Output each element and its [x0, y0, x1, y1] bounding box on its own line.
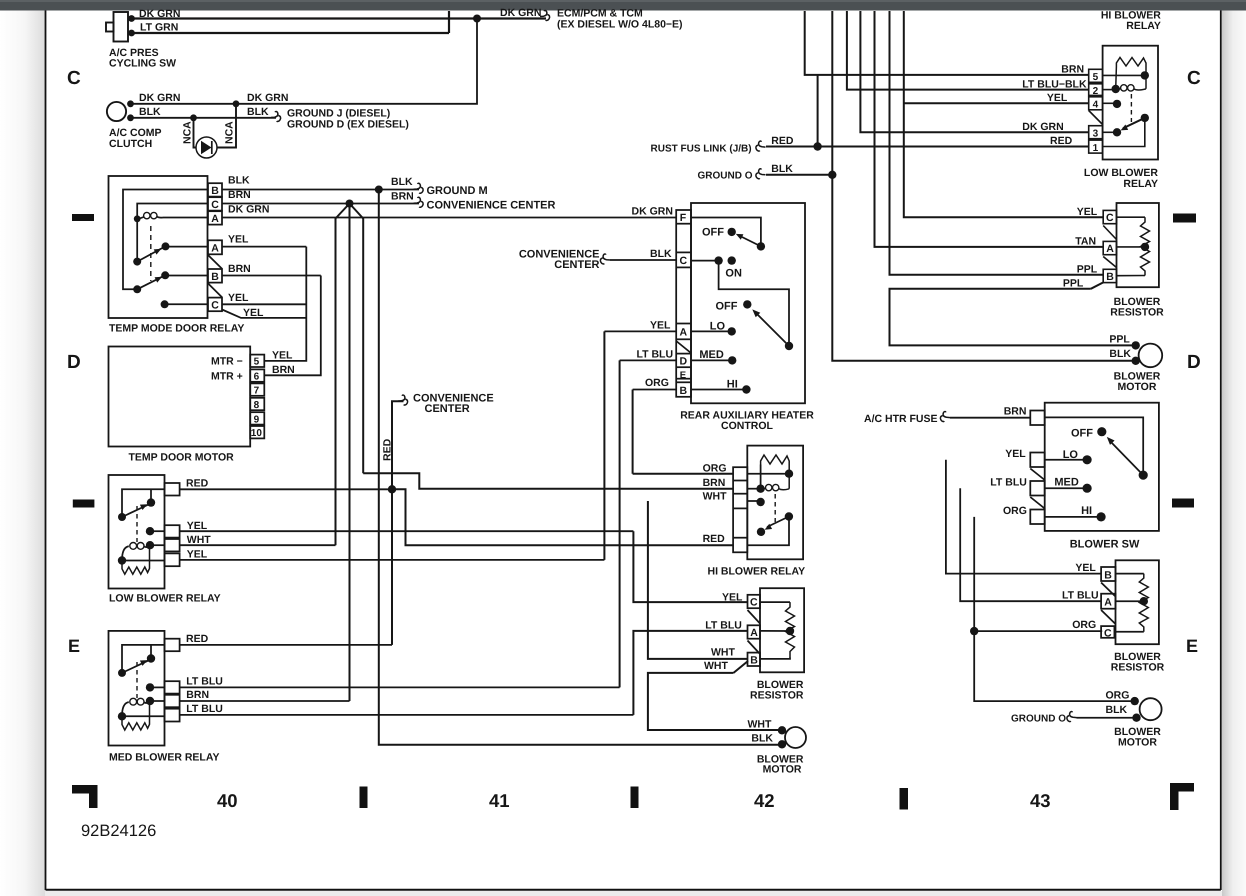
wire ON node to sw2 pivot	[719, 261, 789, 342]
wire pin1 row to pivot	[1103, 118, 1145, 147]
wire C row inside	[1114, 631, 1143, 633]
dashed linkage	[136, 662, 138, 698]
svg-text:C: C	[750, 597, 758, 609]
svg-text:E: E	[1186, 636, 1198, 656]
wire A row inside	[1117, 246, 1146, 248]
node LT BLU contact	[146, 683, 154, 691]
svg-text:LT BLU: LT BLU	[705, 620, 742, 632]
pin C box	[748, 595, 761, 608]
svg-text:DK GRN: DK GRN	[632, 206, 673, 218]
svg-text:DK GRN: DK GRN	[247, 92, 288, 104]
wire YEL C2 to vertical	[222, 303, 306, 305]
svg-text:A/C HTR FUSE: A/C HTR FUSE	[864, 413, 938, 425]
svg-text:D: D	[680, 356, 688, 368]
svg-text:A: A	[680, 327, 688, 339]
wire BRN run to HI blower relay	[363, 473, 733, 488]
wire BRN row to fan-center vertical	[180, 700, 350, 702]
relay coil loops	[122, 702, 129, 716]
wire BLK to ground M	[222, 189, 419, 191]
arm with arrow	[122, 505, 149, 518]
svg-text:8: 8	[254, 400, 260, 411]
node RED junction	[388, 485, 396, 493]
svg-text:E: E	[68, 636, 80, 656]
pin 6 box	[250, 369, 264, 381]
wire contact C2 to pin C2	[165, 303, 208, 305]
svg-text:BRN: BRN	[228, 189, 251, 201]
pin A box	[748, 625, 761, 638]
pin 1 box	[1089, 140, 1103, 153]
wire A row inside	[1116, 600, 1144, 602]
wire YEL pin4 row	[904, 102, 1089, 104]
node BLK terminal	[1132, 714, 1140, 722]
svg-text:DK GRN: DK GRN	[139, 8, 180, 20]
margin tick right 2	[1172, 499, 1194, 508]
pin stub LT BLU	[1030, 481, 1044, 496]
node HI contact	[742, 385, 750, 393]
pin stub BRN	[165, 695, 180, 707]
connector squiggle rust fus link	[756, 141, 766, 151]
connector squiggle grounds J/D	[271, 111, 281, 121]
zone tick 40/41	[360, 787, 368, 809]
svg-text:GROUND M: GROUND M	[427, 185, 488, 197]
node coil left / YEL2	[118, 556, 126, 564]
wire WHT row to fan-left vertical	[180, 544, 336, 546]
wire right leg down to coil	[1145, 75, 1147, 88]
pin stub LT BLU2	[165, 709, 180, 722]
svg-text:LT BLU: LT BLU	[990, 477, 1027, 489]
wire pin D to MED contact	[691, 359, 732, 361]
svg-text:WHT: WHT	[704, 660, 728, 672]
relay coil loops	[137, 217, 143, 219]
svg-text:B: B	[211, 185, 219, 197]
svg-text:BRN: BRN	[391, 191, 414, 203]
connector squiggle convenience center	[414, 197, 424, 207]
svg-text:YEL: YEL	[650, 320, 671, 332]
wire RED pin to pivot rail	[122, 489, 165, 513]
svg-text:3: 3	[1093, 128, 1099, 139]
left scan edge gradient	[0, 10, 45, 896]
node OFF contact	[1097, 427, 1106, 436]
svg-text:BLK: BLK	[1106, 704, 1128, 716]
svg-text:B: B	[211, 271, 219, 283]
wire TAN from off-page to resistor1 A	[875, 11, 1104, 247]
wire WHT vertical from HI relay to resistor B	[648, 501, 748, 659]
svg-text:CENTER: CENTER	[425, 403, 470, 415]
zone tick 42/43	[900, 788, 909, 810]
svg-text:RED: RED	[382, 438, 394, 461]
wire ORG vertical from control pin B	[632, 390, 634, 474]
svg-text:(EX DIESEL W/O 4L80−E): (EX DIESEL W/O 4L80−E)	[557, 19, 683, 31]
A/C comp clutch circle	[107, 102, 126, 121]
svg-text:A: A	[211, 213, 219, 225]
node sw1 pivot	[757, 242, 765, 250]
svg-text:LT GRN: LT GRN	[140, 22, 178, 34]
wire left leg resistor	[760, 465, 762, 489]
wire pin C down to coil node	[137, 204, 208, 219]
node coil right	[146, 697, 154, 705]
svg-text:41: 41	[489, 790, 510, 811]
pin A box	[1103, 241, 1116, 254]
svg-text:MOTOR: MOTOR	[763, 764, 802, 776]
wire YEL C2 lower diagonal	[222, 310, 306, 318]
node sw2 pivot	[785, 342, 793, 350]
diode cathode bar	[211, 141, 213, 154]
svg-text:E: E	[680, 370, 686, 381]
sw1 arm with arrow	[739, 236, 761, 247]
wire diode left leg	[194, 118, 197, 148]
pin 3 box	[1089, 126, 1103, 139]
pin 5 box	[1089, 69, 1103, 82]
node MED contact	[728, 356, 736, 364]
node resistor tap	[1141, 243, 1149, 251]
keying slash A2-B2	[208, 255, 222, 269]
svg-text:YEL: YEL	[228, 292, 249, 304]
pin B box	[208, 183, 222, 196]
wire BRN pin to coil node	[150, 700, 165, 702]
wire BRN B2 to vertical	[222, 275, 321, 277]
svg-text:WHT: WHT	[187, 534, 211, 546]
wire YEL vertical to resistor2 B	[946, 460, 1101, 574]
crop mark bottom right	[1170, 783, 1194, 810]
svg-text:YEL: YEL	[1005, 448, 1026, 460]
keying slash B2-C2	[208, 283, 222, 297]
wire contact stub to RED row	[150, 489, 152, 502]
svg-text:B: B	[750, 654, 758, 666]
wire ORG corner into pin B	[633, 389, 677, 391]
arm2 with arrow	[137, 276, 163, 289]
arm with arrow	[122, 660, 149, 673]
wire coil node down to arm1 pivot	[136, 219, 138, 262]
wire RED pin to pivot rail	[122, 645, 165, 670]
wire pin3 row inside	[1103, 131, 1117, 133]
connector squiggle ground O 2	[1067, 712, 1077, 722]
svg-text:TEMP MODE DOOR RELAY: TEMP MODE DOOR RELAY	[109, 323, 244, 335]
svg-text:LT BLU: LT BLU	[186, 703, 223, 715]
resistor BLOWER RESISTOR (right2) box	[1116, 560, 1159, 644]
svg-text:CLUTCH: CLUTCH	[109, 138, 152, 150]
pin B box	[748, 653, 761, 666]
svg-text:42: 42	[754, 790, 775, 811]
node MED contact	[1083, 484, 1092, 493]
node clutch DK GRN terminal	[127, 100, 134, 107]
wire BLK ground O row	[1077, 717, 1137, 719]
wire diode right leg	[217, 104, 236, 148]
node arm2 contact	[161, 271, 169, 279]
node pressure switch LT GRN terminal	[128, 30, 135, 37]
zone tick 41/42	[631, 787, 639, 809]
node coil right	[146, 541, 154, 549]
svg-text:BLK: BLK	[139, 106, 161, 118]
margin tick left 2	[73, 500, 95, 508]
svg-text:BRN: BRN	[703, 477, 726, 489]
node junction DK GRN to ECM	[473, 15, 481, 23]
node BLK junction	[375, 186, 383, 194]
wire BLK GROUND O vertical to motor1	[832, 11, 1135, 361]
svg-text:BLK: BLK	[247, 106, 269, 118]
wire RED branch down to rust fus link row	[817, 75, 819, 147]
wire RED row to junction	[180, 488, 392, 490]
keying slash C-A	[748, 610, 761, 624]
svg-text:C: C	[1106, 212, 1114, 224]
svg-text:DK GRN: DK GRN	[500, 7, 541, 19]
svg-text:92B24126: 92B24126	[81, 822, 156, 840]
wire BLK from clutch to ground squiggle	[131, 117, 277, 119]
wire C row inside	[760, 601, 790, 603]
wire PPL2 resistor1 B to motor1	[890, 289, 1136, 346]
svg-text:PPL: PPL	[1077, 264, 1098, 276]
svg-text:TEMP DOOR MOTOR: TEMP DOOR MOTOR	[129, 452, 235, 464]
sw arm with arrow	[1109, 440, 1143, 475]
wire contact stub to RED row	[150, 645, 152, 659]
svg-text:YEL: YEL	[1047, 92, 1068, 104]
node pressure switch DK GRN terminal	[128, 15, 135, 22]
pin stub YEL2	[165, 553, 180, 566]
wire DK GRN from pressure switch	[128, 17, 546, 19]
svg-text:5: 5	[254, 357, 260, 368]
wire pin5 row inside	[1103, 74, 1145, 76]
node coil left	[134, 215, 141, 222]
svg-text:WHT: WHT	[748, 719, 772, 731]
svg-text:DK GRN: DK GRN	[228, 204, 269, 216]
wire BRN to convenience center	[222, 203, 419, 205]
svg-text:DK GRN: DK GRN	[1022, 121, 1063, 133]
svg-text:LT BLU: LT BLU	[637, 349, 674, 361]
wire ORG row inside to resistor leg	[747, 473, 789, 475]
wire RED rust fus link row	[766, 146, 1089, 148]
svg-text:A: A	[1106, 243, 1114, 255]
node ON wire end	[714, 256, 722, 264]
svg-text:BRN: BRN	[186, 689, 209, 701]
wire LT BLU vertical to control pin D	[619, 360, 621, 687]
wire DK GRN to control pin F	[222, 217, 676, 219]
svg-text:BLK: BLK	[228, 175, 250, 187]
pin 9 box	[250, 412, 264, 424]
svg-text:OFF: OFF	[1071, 428, 1093, 440]
connector squiggle A/C HTR FUSE	[940, 412, 950, 422]
node sw pivot	[1139, 471, 1148, 480]
svg-text:BLK: BLK	[1109, 348, 1131, 360]
pin C box	[1101, 626, 1114, 638]
wire LT BLU row to control-D vertical	[180, 686, 620, 688]
diode circle	[196, 137, 217, 158]
node coil left	[756, 485, 764, 493]
node contact C2	[161, 300, 169, 308]
node arm pivot	[118, 669, 126, 677]
svg-text:CONTROL: CONTROL	[721, 420, 773, 432]
svg-text:RESISTOR: RESISTOR	[750, 690, 804, 702]
node arm contact	[757, 528, 765, 536]
svg-text:NCA: NCA	[182, 121, 194, 144]
wire RED jog to HI blower relay	[392, 489, 733, 545]
svg-text:YEL: YEL	[187, 549, 208, 561]
svg-text:BLK: BLK	[391, 176, 413, 188]
svg-text:PPL: PPL	[1063, 278, 1084, 290]
pin stub RED	[165, 639, 180, 652]
node YEL contact	[146, 527, 154, 535]
svg-text:CONVENIENCE CENTER: CONVENIENCE CENTER	[427, 200, 556, 212]
A/C pressure cycling switch port nub	[106, 23, 114, 32]
pin 10 box	[250, 426, 264, 438]
relay LOW BLOWER RELAY (right) box	[1103, 46, 1158, 160]
svg-text:7: 7	[254, 386, 260, 397]
wire YEL pin to contact	[150, 530, 165, 532]
node arm contact	[147, 654, 155, 662]
node arm contact	[147, 498, 155, 506]
wire BRN row to pivot	[1045, 417, 1144, 471]
pin stub RED	[165, 483, 180, 496]
pin 8 box	[250, 398, 264, 410]
relay coil loops	[1116, 88, 1121, 91]
svg-text:WHT: WHT	[711, 647, 735, 659]
node ORG terminal	[1131, 697, 1139, 705]
svg-text:CENTER: CENTER	[554, 259, 599, 271]
svg-text:CYCLING SW: CYCLING SW	[109, 58, 176, 70]
svg-text:GROUND O: GROUND O	[1011, 714, 1066, 725]
pin C2 box	[208, 298, 222, 312]
switch BLOWER SW box	[1045, 403, 1159, 531]
svg-text:MED: MED	[1054, 477, 1079, 489]
svg-text:YEL: YEL	[228, 234, 249, 246]
arm1 with arrow	[137, 248, 163, 262]
wire B row inside	[1117, 275, 1146, 277]
wire RED vertical convenience center to MED relay	[392, 401, 404, 645]
node LO contact	[1083, 455, 1092, 464]
node arm pivot	[785, 512, 793, 520]
pin C box	[208, 197, 222, 210]
node clutch BLK terminal	[127, 114, 134, 121]
wire YEL vertical to blower resistor C	[633, 531, 747, 602]
keying slash C-A	[1103, 226, 1116, 240]
wire BRN row to coil left	[747, 488, 760, 490]
svg-text:LT BLU−BLK: LT BLU−BLK	[1022, 79, 1087, 91]
wire LT BLU2 pin to coil left	[122, 715, 165, 717]
svg-text:A: A	[211, 243, 219, 255]
svg-text:9: 9	[254, 414, 260, 425]
svg-text:LO: LO	[1063, 449, 1079, 461]
diode triangle	[201, 141, 212, 154]
wire ORG vertical to resistor2 C and motor2	[974, 517, 1134, 701]
node diode left tap on BLK wire	[190, 114, 197, 121]
svg-text:WHT: WHT	[703, 491, 727, 503]
node WHT terminal	[778, 726, 786, 734]
svg-text:YEL: YEL	[722, 592, 743, 604]
resistor parallel	[122, 545, 150, 574]
wire A row inside	[760, 630, 790, 632]
connector squiggle ground M	[414, 183, 424, 193]
node arm pivot	[118, 513, 126, 521]
svg-text:RED: RED	[771, 135, 794, 147]
node resistor tap	[1140, 597, 1148, 605]
node coil left / LT BLU2	[118, 712, 126, 720]
wire YEL2 pin to coil left	[122, 560, 165, 562]
wire coil to pin A	[163, 217, 208, 219]
node PPL terminal	[1132, 341, 1140, 349]
svg-text:C: C	[211, 199, 219, 211]
svg-text:C: C	[211, 300, 219, 312]
node arm1 contact	[162, 242, 170, 250]
pin stub WHT	[165, 539, 180, 551]
wire LT BLU vertical to resistor2 A	[960, 488, 1101, 601]
motor BLOWER MOTOR (right1) circle	[1139, 344, 1163, 368]
wire ORG row to resistor2 C	[974, 630, 1102, 632]
svg-text:43: 43	[1030, 790, 1051, 811]
wire BRN from A/C HTR FUSE	[950, 417, 1030, 419]
wire DK GRN branch down to clutch row	[132, 19, 478, 104]
wire WHT lower segment to motor and resistor B diagonal	[648, 673, 782, 730]
wire pin C to ON contact	[691, 260, 719, 262]
node pin4 contact	[1113, 100, 1121, 108]
svg-text:BLK: BLK	[771, 163, 793, 175]
resistor element zigzag	[786, 602, 795, 657]
wire LT BLU vertical to blower resistor A	[633, 631, 747, 715]
svg-text:4: 4	[1093, 100, 1099, 111]
node sw1 OFF contact	[728, 228, 736, 236]
connector squiggle ground O	[756, 169, 766, 179]
wire BLK ground O row	[766, 174, 832, 176]
pin 5 box	[250, 355, 264, 367]
arm with arrow	[1123, 118, 1145, 128]
pin stub BRN	[1030, 411, 1044, 426]
wire LT GRN rises off page	[448, 11, 450, 33]
wire pin4 row inside	[1103, 102, 1117, 104]
wire B row inside	[760, 658, 790, 659]
svg-text:B: B	[680, 385, 688, 397]
svg-text:YEL: YEL	[1075, 562, 1096, 574]
connector squiggle convenience center BLK	[600, 254, 610, 264]
resistor element zigzag	[1141, 217, 1150, 275]
svg-text:40: 40	[217, 790, 238, 811]
svg-text:ORG: ORG	[1072, 619, 1096, 631]
svg-text:RESISTOR: RESISTOR	[1111, 662, 1165, 674]
connector squiggle ECM	[540, 10, 550, 20]
node BLK terminal	[1132, 357, 1140, 365]
dashed linkage	[136, 506, 138, 542]
coil resistor zigzag	[761, 455, 790, 489]
svg-text:5: 5	[1093, 72, 1099, 83]
node arm contact	[1113, 128, 1121, 136]
wire contact2 to pin B2	[165, 275, 208, 277]
relay coil loops	[122, 546, 129, 560]
svg-text:RED: RED	[703, 533, 726, 545]
svg-text:ON: ON	[725, 268, 742, 280]
node diode right tap on DK GRN wire	[233, 100, 240, 107]
svg-text:LO: LO	[710, 321, 726, 333]
resistor parallel	[122, 701, 150, 730]
svg-text:DK GRN: DK GRN	[139, 92, 180, 104]
relay coil loops	[761, 487, 766, 490]
margin tick right 1	[1173, 214, 1196, 223]
wire LT BLU-BLK from off-page to pin 2	[847, 11, 1089, 90]
node WHT contact	[756, 498, 764, 506]
node coil left	[1112, 85, 1120, 93]
svg-text:6: 6	[254, 372, 260, 383]
crop mark bottom left	[72, 785, 98, 808]
wire BRN vertical (fan right)	[362, 218, 364, 473]
relay HI BLOWER RELAY box	[747, 446, 803, 560]
svg-text:MTR −: MTR −	[211, 356, 243, 368]
svg-text:BRN: BRN	[228, 263, 251, 275]
connector squiggle convenience center (RED)	[398, 395, 408, 405]
svg-text:LOW BLOWER RELAY: LOW BLOWER RELAY	[109, 593, 221, 605]
svg-text:ORG: ORG	[703, 463, 727, 475]
svg-text:MED: MED	[699, 349, 724, 361]
pin A box	[208, 211, 222, 224]
switch1: wire F to pivot	[691, 218, 761, 243]
svg-text:BLK: BLK	[650, 248, 672, 260]
svg-text:RUST FUS LINK (J/B): RUST FUS LINK (J/B)	[651, 143, 752, 154]
wire YEL row to resistor C vertical	[180, 530, 634, 532]
svg-text:MOTOR: MOTOR	[1118, 381, 1157, 393]
